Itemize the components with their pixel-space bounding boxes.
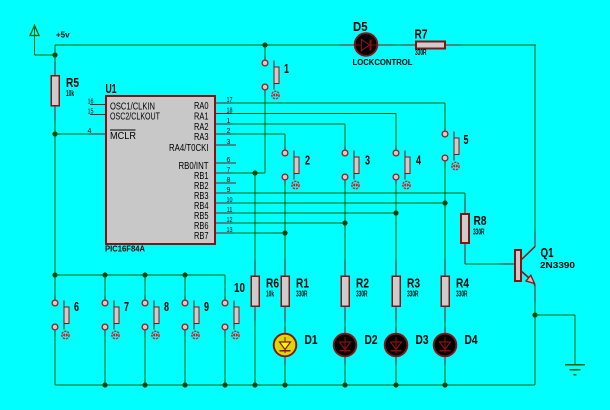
svg-text:Q1: Q1 [541, 246, 554, 260]
svg-text:13: 13 [227, 227, 233, 234]
svg-text:R5: R5 [66, 76, 79, 90]
svg-text:MCLR: MCLR [110, 131, 136, 142]
svg-text:1: 1 [284, 62, 289, 76]
svg-text:330R: 330R [473, 228, 485, 237]
svg-text:6: 6 [74, 300, 79, 314]
svg-text:330R: 330R [296, 290, 308, 299]
svg-text:U1: U1 [106, 82, 117, 96]
svg-text:6: 6 [227, 157, 231, 164]
svg-text:10k: 10k [266, 290, 274, 299]
svg-text:R1: R1 [296, 277, 309, 291]
svg-text:LOCKCONTROL: LOCKCONTROL [353, 58, 413, 67]
svg-text:R7: R7 [415, 28, 428, 42]
svg-text:2: 2 [305, 154, 310, 168]
svg-text:PIC16F84A: PIC16F84A [105, 245, 145, 254]
svg-text:8: 8 [164, 300, 169, 314]
svg-text:10: 10 [227, 197, 233, 204]
svg-text:2: 2 [227, 128, 231, 135]
svg-text:D5: D5 [353, 20, 368, 34]
svg-text:18: 18 [227, 108, 233, 115]
svg-text:RA1: RA1 [194, 112, 209, 123]
svg-text:D4: D4 [465, 333, 478, 347]
svg-text:12: 12 [227, 217, 233, 224]
svg-text:7: 7 [227, 167, 231, 174]
svg-text:RB7: RB7 [194, 231, 209, 242]
svg-text:1: 1 [227, 118, 231, 125]
svg-text:330R: 330R [456, 290, 468, 299]
svg-text:3: 3 [227, 139, 231, 146]
svg-text:17: 17 [227, 97, 233, 104]
svg-text:RA3: RA3 [194, 132, 209, 143]
svg-text:4: 4 [416, 154, 421, 168]
svg-text:R8: R8 [474, 214, 487, 228]
svg-text:D1: D1 [305, 333, 318, 347]
svg-text:5: 5 [464, 133, 469, 147]
svg-text:9: 9 [204, 300, 209, 314]
svg-text:D2: D2 [365, 333, 378, 347]
svg-text:R6: R6 [266, 277, 279, 291]
svg-text:R4: R4 [456, 277, 469, 291]
svg-text:330R: 330R [407, 290, 419, 299]
svg-text:3: 3 [365, 154, 370, 168]
svg-text:RA0: RA0 [194, 101, 209, 112]
svg-text:4: 4 [88, 128, 92, 135]
svg-text:OSC2/CLKOUT: OSC2/CLKOUT [110, 111, 160, 122]
svg-text:D3: D3 [416, 333, 429, 347]
svg-text:8: 8 [227, 177, 231, 184]
svg-text:R3: R3 [407, 277, 420, 291]
svg-text:16: 16 [88, 99, 94, 106]
svg-text:330R: 330R [415, 48, 427, 57]
svg-text:7: 7 [124, 300, 129, 314]
svg-text:9: 9 [227, 187, 231, 194]
svg-text:15: 15 [88, 109, 94, 116]
svg-text:330R: 330R [356, 290, 368, 299]
svg-text:11: 11 [227, 207, 233, 214]
svg-text:2N3390: 2N3390 [540, 261, 576, 270]
svg-text:R2: R2 [356, 277, 369, 291]
svg-text:+5v: +5v [56, 31, 70, 40]
svg-text:10k: 10k [66, 89, 74, 98]
svg-text:10: 10 [234, 281, 245, 295]
svg-text:RA4/T0CKI: RA4/T0CKI [169, 143, 209, 154]
